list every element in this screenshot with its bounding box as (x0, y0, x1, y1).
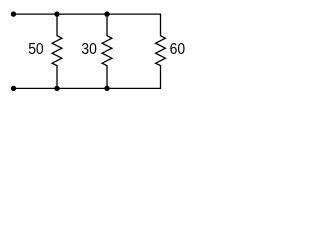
node terminal bottom-left (11, 86, 16, 91)
node junction R2 bottom (104, 86, 109, 91)
svg-text:60: 60 (170, 41, 186, 58)
wire top rail (14, 13, 161, 15)
node junction R2 top (104, 11, 109, 16)
svg-text:50: 50 (28, 41, 44, 58)
wire bottom rail (14, 87, 161, 89)
svg-text:30: 30 (81, 41, 97, 58)
resistor R3 value 60 (156, 14, 166, 88)
node junction R1 top (54, 11, 59, 16)
resistor R2 value 30 (102, 14, 112, 88)
node terminal top-left (11, 11, 16, 16)
node junction R1 bottom (54, 86, 59, 91)
resistor R1 value 50 (52, 14, 62, 88)
